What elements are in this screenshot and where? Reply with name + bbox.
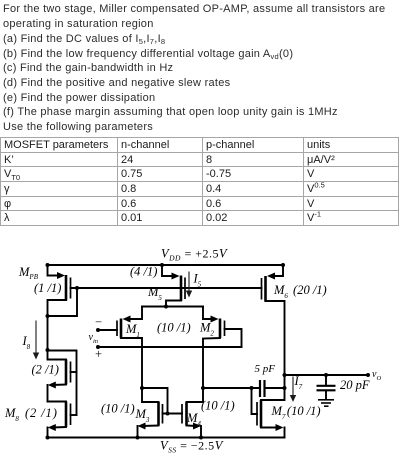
- svg-text:I5: I5: [193, 272, 202, 289]
- svg-text:5 pF: 5 pF: [255, 363, 276, 375]
- svg-text:M6 (20 /1): M6 (20 /1): [273, 283, 327, 300]
- svg-text:I7: I7: [294, 374, 303, 391]
- svg-text:(4 /1): (4 /1): [130, 265, 157, 279]
- svg-text:(10 /1): (10 /1): [101, 402, 135, 416]
- svg-text:(2 /1): (2 /1): [32, 363, 59, 377]
- svg-text:MPB: MPB: [18, 265, 39, 281]
- svg-text:M1: M1: [125, 322, 140, 339]
- svg-text:20 pF: 20 pF: [340, 378, 370, 392]
- svg-text:vin: vin: [89, 332, 99, 345]
- svg-text:(1 /1): (1 /1): [34, 281, 61, 295]
- svg-text:M3: M3: [135, 407, 150, 424]
- svg-text:M2: M2: [199, 321, 214, 338]
- svg-text:+: +: [95, 347, 102, 361]
- svg-text:−: −: [95, 315, 102, 329]
- svg-text:I8: I8: [22, 334, 31, 351]
- svg-text:VDD = +2.5V: VDD = +2.5V: [161, 247, 228, 263]
- svg-text:M7(10 /1): M7(10 /1): [271, 404, 321, 421]
- svg-text:M8 (2 /1): M8 (2 /1): [4, 406, 58, 423]
- svg-text:(10 /1): (10 /1): [201, 399, 235, 413]
- svg-text:(10 /1): (10 /1): [157, 321, 191, 335]
- svg-text:vO: vO: [372, 369, 381, 382]
- svg-text:VSS = −2.5V: VSS = −2.5V: [160, 439, 224, 455]
